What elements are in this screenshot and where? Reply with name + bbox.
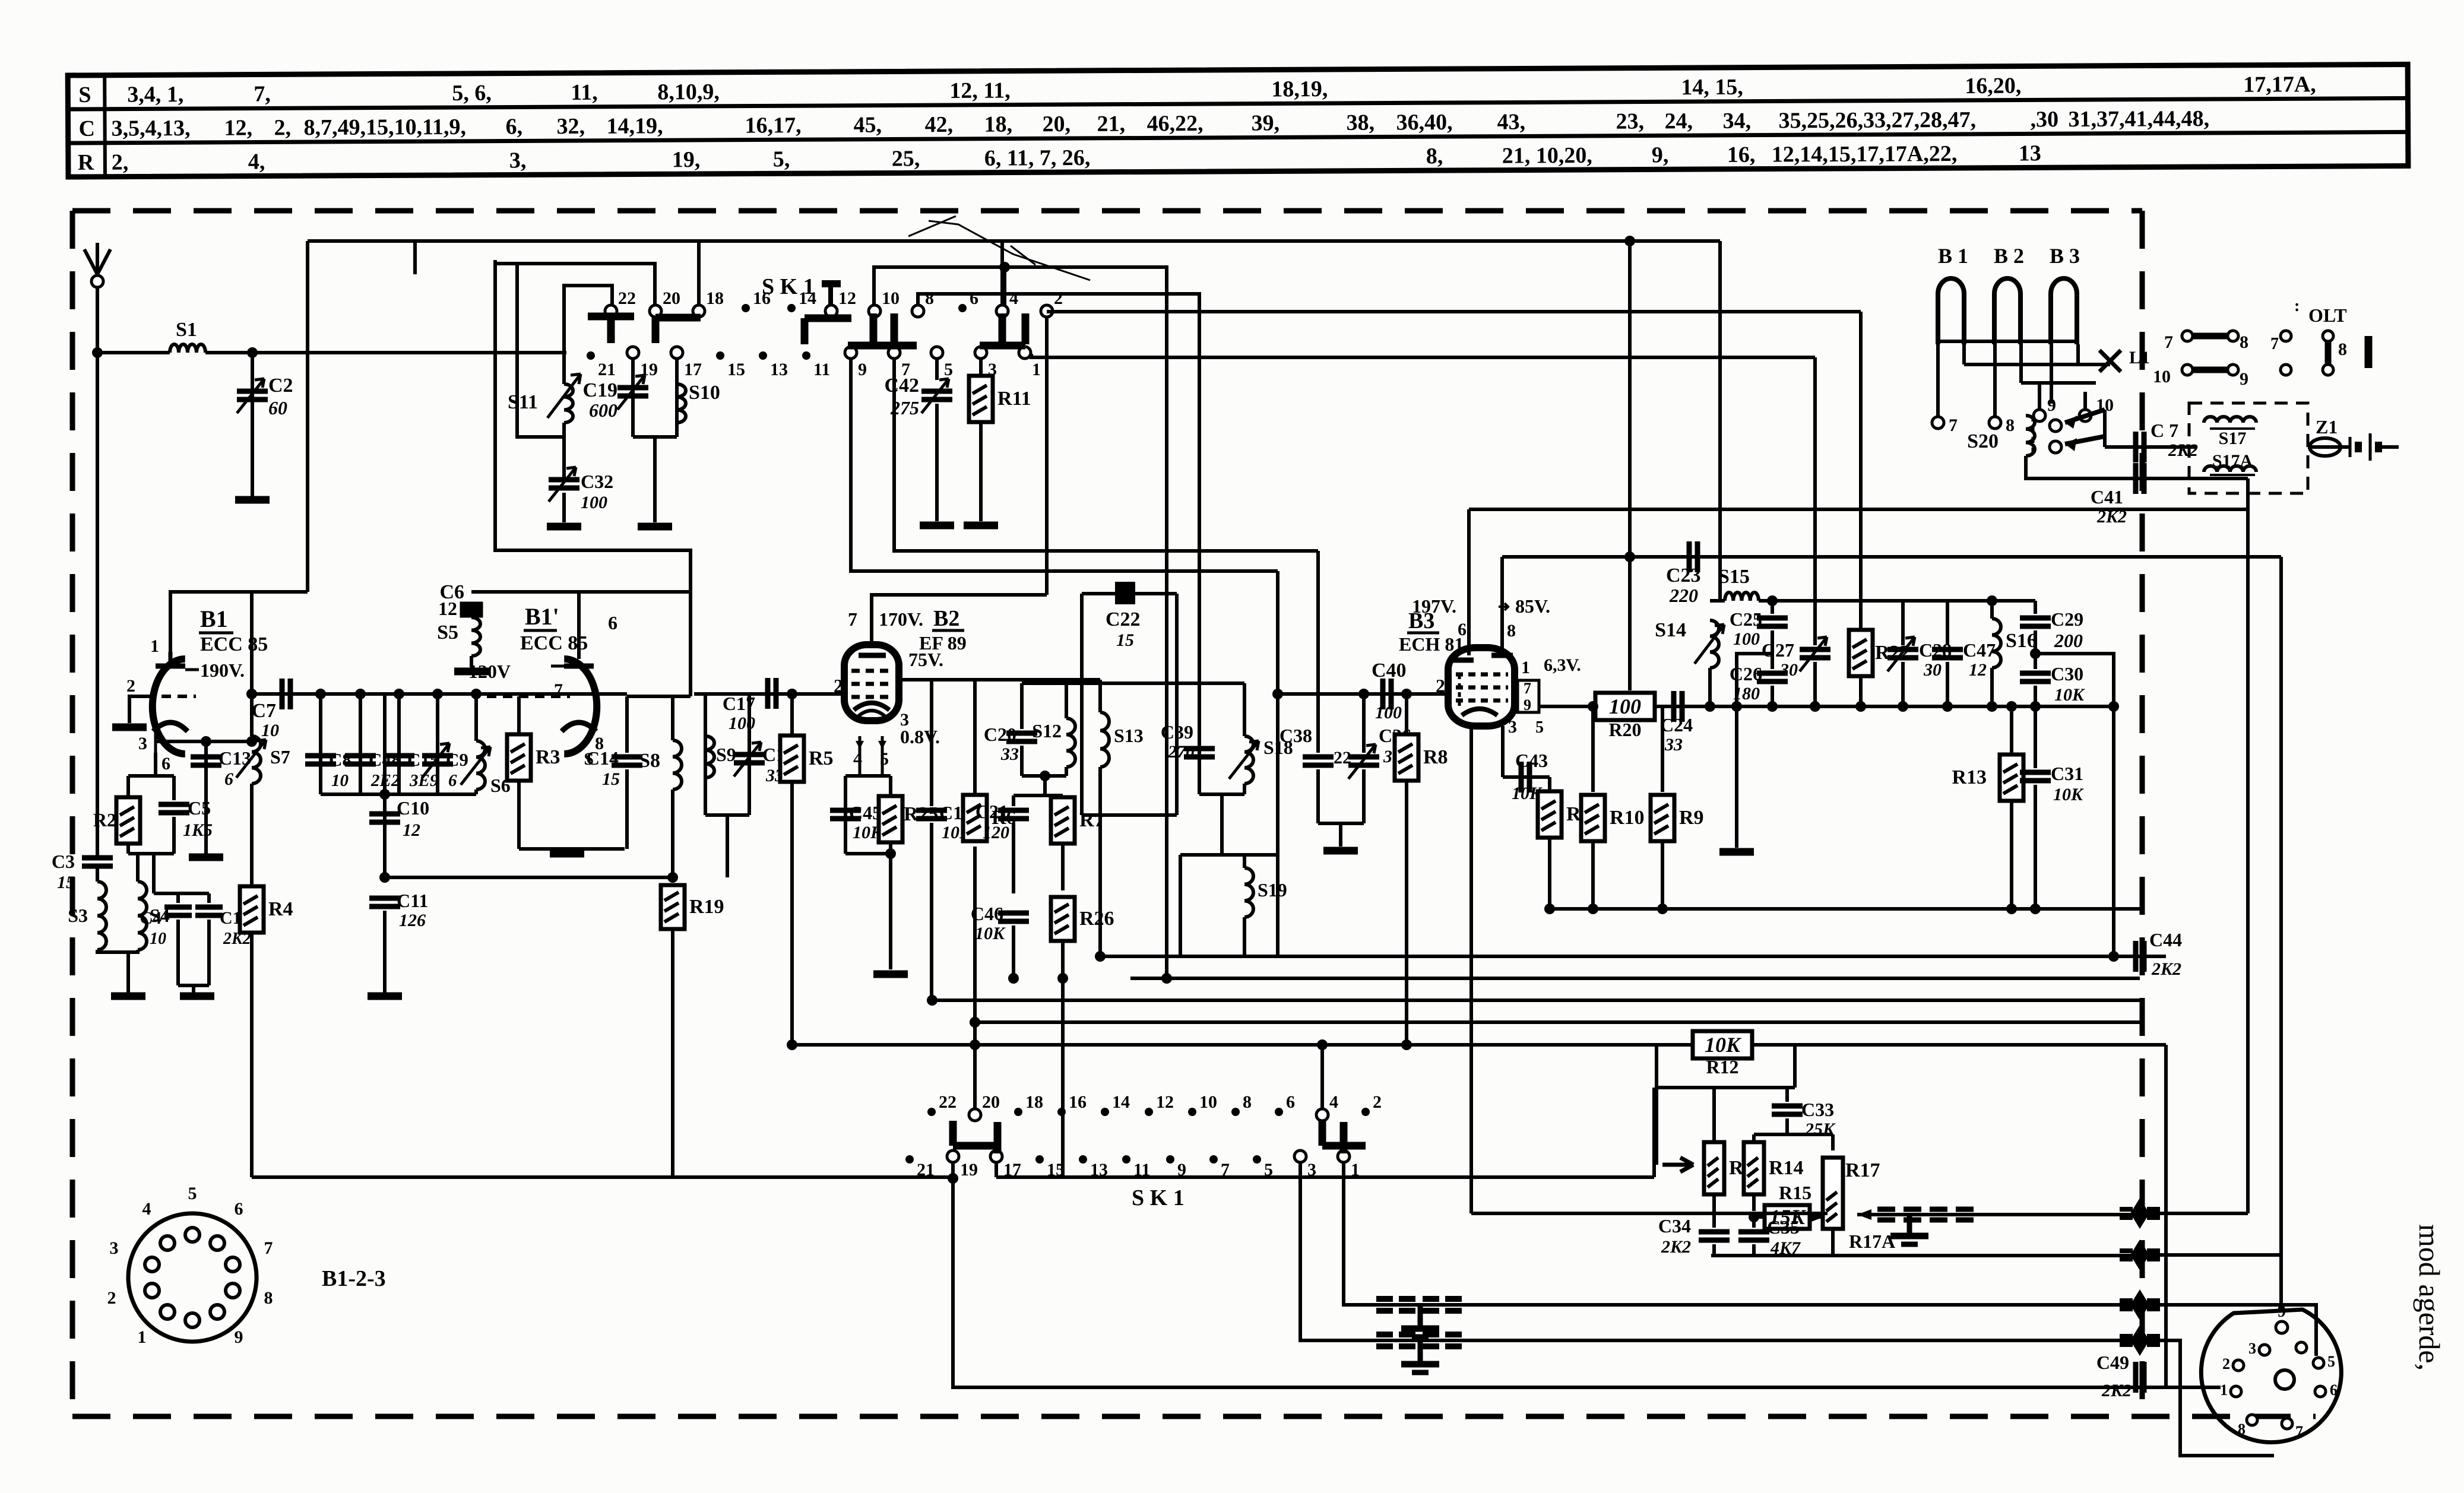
svg-text:B 1: B 1 xyxy=(1938,244,1968,268)
svg-text:16,: 16, xyxy=(1727,142,1756,167)
svg-text:19: 19 xyxy=(960,1160,978,1180)
svg-text:270: 270 xyxy=(1167,742,1195,762)
svg-text:6: 6 xyxy=(608,612,617,633)
svg-text:85V.: 85V. xyxy=(1515,595,1550,617)
svg-text:C 7: C 7 xyxy=(2151,420,2178,441)
svg-text:C26: C26 xyxy=(1730,663,1762,684)
svg-text:1K5: 1K5 xyxy=(183,820,213,840)
svg-text:C41: C41 xyxy=(2091,486,2123,508)
svg-text:B 2: B 2 xyxy=(1994,244,2024,268)
svg-text:600: 600 xyxy=(589,400,617,421)
svg-text:R17: R17 xyxy=(1845,1159,1880,1181)
svg-text:C2: C2 xyxy=(268,375,293,397)
svg-text:S20: S20 xyxy=(1967,430,1999,452)
svg-text:6,: 6, xyxy=(506,114,523,139)
svg-text:100: 100 xyxy=(1375,703,1402,722)
svg-text:3,5,4,13,: 3,5,4,13, xyxy=(112,116,191,141)
svg-text:8: 8 xyxy=(1243,1092,1252,1112)
svg-text:15: 15 xyxy=(727,360,745,379)
svg-text:R12: R12 xyxy=(1706,1056,1738,1077)
svg-text:22: 22 xyxy=(939,1092,957,1112)
svg-text:100: 100 xyxy=(581,493,607,512)
svg-text:5,: 5, xyxy=(773,147,790,172)
svg-text:100: 100 xyxy=(729,714,755,733)
svg-text:C42: C42 xyxy=(884,375,919,397)
svg-text:2K2: 2K2 xyxy=(2151,959,2181,979)
svg-text:7: 7 xyxy=(2295,1423,2303,1440)
svg-text:275: 275 xyxy=(890,397,919,419)
svg-text:C31: C31 xyxy=(2051,763,2083,784)
svg-text:C25: C25 xyxy=(1730,608,1762,630)
svg-text:15: 15 xyxy=(57,873,75,892)
svg-text:2: 2 xyxy=(2222,1355,2230,1372)
svg-text:10: 10 xyxy=(1199,1092,1217,1112)
svg-text:B1': B1' xyxy=(525,603,559,630)
svg-text:24,: 24, xyxy=(1664,109,1693,134)
svg-text:18,19,: 18,19, xyxy=(1271,77,1328,102)
svg-text:C14: C14 xyxy=(586,747,619,769)
svg-text:14, 15,: 14, 15, xyxy=(1681,75,1743,100)
svg-text:B2: B2 xyxy=(933,606,959,631)
svg-text:220: 220 xyxy=(1669,585,1698,606)
svg-text:3,: 3, xyxy=(509,148,527,173)
svg-text:30: 30 xyxy=(1779,660,1798,680)
svg-text:C4: C4 xyxy=(140,908,161,928)
svg-text:200: 200 xyxy=(2054,630,2083,651)
svg-text:170V.: 170V. xyxy=(879,608,923,630)
svg-text:4,: 4, xyxy=(248,149,265,174)
svg-text:30: 30 xyxy=(1923,660,1942,680)
svg-text:S11: S11 xyxy=(508,391,538,413)
svg-text:120: 120 xyxy=(983,823,1009,842)
svg-text:2: 2 xyxy=(107,1288,116,1308)
svg-text:32,: 32, xyxy=(557,114,585,139)
svg-text:75V.: 75V. xyxy=(908,649,943,670)
svg-text:R25: R25 xyxy=(904,803,939,825)
svg-text:2K2: 2K2 xyxy=(2096,507,2127,527)
svg-text:R5: R5 xyxy=(809,747,834,769)
svg-text:9: 9 xyxy=(1524,696,1531,714)
svg-text:6: 6 xyxy=(2330,1381,2338,1399)
svg-text:11,: 11, xyxy=(571,80,598,105)
svg-text:R26: R26 xyxy=(1079,908,1114,930)
svg-text:R2: R2 xyxy=(93,809,116,830)
svg-text:S6: S6 xyxy=(490,775,511,796)
svg-text:34,: 34, xyxy=(1722,109,1751,134)
svg-text:7: 7 xyxy=(264,1238,273,1258)
svg-text:C38: C38 xyxy=(1279,725,1312,746)
svg-text:2K2: 2K2 xyxy=(2101,1381,2132,1400)
svg-text:16: 16 xyxy=(1069,1092,1087,1112)
svg-text:3,4, 1,: 3,4, 1, xyxy=(127,82,183,107)
svg-text:8: 8 xyxy=(264,1288,273,1308)
svg-text:C32: C32 xyxy=(581,471,613,492)
svg-text:12: 12 xyxy=(403,820,420,840)
svg-text:C10: C10 xyxy=(397,797,429,819)
svg-text:C48: C48 xyxy=(369,749,400,770)
svg-text:0.8V.: 0.8V. xyxy=(900,726,940,747)
svg-text:126: 126 xyxy=(399,911,426,930)
svg-text:S9: S9 xyxy=(716,744,736,765)
svg-text:C49: C49 xyxy=(2096,1352,2129,1373)
svg-text:OLT: OLT xyxy=(2308,305,2347,326)
svg-text:1: 1 xyxy=(138,1327,147,1347)
svg-text:43,: 43, xyxy=(1497,109,1525,134)
svg-text:C47: C47 xyxy=(1963,639,1996,661)
svg-text:C8: C8 xyxy=(329,749,351,770)
svg-text:R10: R10 xyxy=(1610,807,1645,829)
svg-text:16,17,: 16,17, xyxy=(745,113,801,138)
svg-text:2K2: 2K2 xyxy=(2168,440,2198,460)
svg-text:S8: S8 xyxy=(639,750,660,772)
svg-text:9: 9 xyxy=(2047,395,2056,415)
svg-text:R15: R15 xyxy=(1779,1182,1811,1203)
svg-text:S19: S19 xyxy=(1258,879,1287,901)
svg-text:7: 7 xyxy=(848,608,857,630)
svg-text:8: 8 xyxy=(1507,621,1516,641)
svg-text:R9: R9 xyxy=(1679,807,1704,829)
svg-text:19,: 19, xyxy=(672,147,701,172)
svg-text:C35: C35 xyxy=(1767,1216,1800,1238)
svg-text:23,: 23, xyxy=(1616,109,1644,134)
svg-text:C11: C11 xyxy=(397,890,428,911)
svg-text:16,20,: 16,20, xyxy=(1965,73,2021,98)
svg-text:S12: S12 xyxy=(1032,720,1062,741)
svg-text:39,: 39, xyxy=(1251,110,1279,135)
svg-text:6: 6 xyxy=(970,289,978,308)
svg-text:C7: C7 xyxy=(251,700,276,722)
svg-text:10: 10 xyxy=(261,721,279,740)
svg-text:33: 33 xyxy=(1664,735,1683,755)
svg-text:17,17A,: 17,17A, xyxy=(2243,72,2316,97)
svg-text:C30: C30 xyxy=(2051,663,2083,684)
svg-text:3: 3 xyxy=(138,734,147,753)
svg-text:190V.: 190V. xyxy=(200,660,245,681)
svg-text:16: 16 xyxy=(753,289,771,308)
svg-text:60: 60 xyxy=(268,397,287,419)
svg-text:12: 12 xyxy=(1969,660,1987,680)
svg-text:35,25,26,33,27,28,47,: 35,25,26,33,27,28,47, xyxy=(1778,107,1976,134)
svg-text:21, 10,20,: 21, 10,20, xyxy=(1502,143,1592,169)
svg-text:S5: S5 xyxy=(437,622,458,644)
svg-text:12: 12 xyxy=(1156,1092,1174,1112)
svg-text:9: 9 xyxy=(2278,1302,2286,1321)
svg-text:2: 2 xyxy=(126,676,135,696)
svg-text:ECC 85: ECC 85 xyxy=(200,633,268,655)
svg-text:C22: C22 xyxy=(1106,608,1141,630)
svg-text:5: 5 xyxy=(944,360,953,379)
svg-text:10: 10 xyxy=(2153,367,2171,386)
svg-text:5: 5 xyxy=(1535,718,1544,737)
svg-text:12: 12 xyxy=(838,289,856,308)
svg-text:R20: R20 xyxy=(1608,719,1641,740)
svg-text:33: 33 xyxy=(1000,744,1019,764)
svg-text:10K: 10K xyxy=(2053,785,2084,804)
svg-text:6: 6 xyxy=(448,771,457,790)
svg-text:C13: C13 xyxy=(218,747,251,769)
svg-text:20: 20 xyxy=(663,289,680,308)
svg-text:36,40,: 36,40, xyxy=(1396,110,1452,135)
svg-text:18,: 18, xyxy=(984,112,1012,137)
svg-text:12,: 12, xyxy=(224,116,253,141)
svg-text:R19: R19 xyxy=(689,896,724,918)
svg-text:14: 14 xyxy=(799,289,816,308)
svg-text:6,3V.: 6,3V. xyxy=(1544,655,1581,675)
svg-text:18: 18 xyxy=(1025,1092,1043,1112)
svg-text:7,: 7, xyxy=(254,81,271,106)
svg-text:14,19,: 14,19, xyxy=(606,113,663,138)
svg-text:R3: R3 xyxy=(536,746,560,768)
svg-text:C29: C29 xyxy=(2051,608,2083,630)
svg-text:,30: ,30 xyxy=(2030,107,2058,132)
svg-text:R17A: R17A xyxy=(1849,1231,1895,1252)
svg-text:S13: S13 xyxy=(1114,725,1144,746)
svg-text:C15: C15 xyxy=(407,749,439,770)
svg-text:9: 9 xyxy=(858,360,867,379)
svg-text:R4: R4 xyxy=(268,898,293,920)
svg-text:1: 1 xyxy=(150,636,159,656)
svg-text:R13: R13 xyxy=(1952,766,1987,788)
svg-text:3: 3 xyxy=(110,1238,119,1258)
svg-text:2: 2 xyxy=(1436,675,1445,696)
svg-text:12,14,15,17,17A,22,: 12,14,15,17,17A,22, xyxy=(1772,141,1958,167)
svg-text:C34: C34 xyxy=(1658,1215,1691,1237)
svg-text:4: 4 xyxy=(142,1199,151,1219)
svg-text:17: 17 xyxy=(684,360,702,379)
svg-text:5: 5 xyxy=(188,1184,197,1203)
svg-text:20,: 20, xyxy=(1042,112,1071,137)
svg-text:10K: 10K xyxy=(975,924,1006,943)
svg-text:C39: C39 xyxy=(1161,721,1193,743)
svg-text:9: 9 xyxy=(2240,369,2248,389)
svg-text:C27: C27 xyxy=(1762,639,1794,661)
svg-text:S17: S17 xyxy=(2219,429,2247,448)
svg-text:C: C xyxy=(79,116,96,141)
svg-text:8: 8 xyxy=(925,289,934,308)
svg-text:C33: C33 xyxy=(1801,1099,1834,1120)
svg-text:22: 22 xyxy=(618,289,636,308)
svg-text:1: 1 xyxy=(1032,360,1041,379)
svg-text:8: 8 xyxy=(2240,332,2248,352)
svg-text:C24: C24 xyxy=(1660,714,1693,736)
svg-text:R14: R14 xyxy=(1769,1157,1804,1179)
svg-text:10: 10 xyxy=(150,930,166,948)
svg-text:7: 7 xyxy=(2270,335,2279,353)
svg-text:42,: 42, xyxy=(924,112,953,137)
svg-text:S7: S7 xyxy=(270,746,290,768)
svg-text:6: 6 xyxy=(1458,620,1467,639)
svg-text:7: 7 xyxy=(1949,416,1958,435)
svg-text:Z1: Z1 xyxy=(2316,416,2338,438)
svg-text:6: 6 xyxy=(1286,1092,1295,1112)
svg-text:C20: C20 xyxy=(984,724,1016,745)
svg-text:1: 1 xyxy=(1521,658,1530,677)
svg-text:10K: 10K xyxy=(2054,685,2085,705)
svg-text:46,22,: 46,22, xyxy=(1147,111,1203,136)
svg-text:100: 100 xyxy=(1733,629,1760,649)
svg-text:21: 21 xyxy=(598,360,616,379)
svg-text:S1: S1 xyxy=(176,319,197,341)
svg-text:18: 18 xyxy=(706,289,724,308)
svg-text:8,: 8, xyxy=(1426,144,1443,169)
svg-text:120V: 120V xyxy=(468,661,511,682)
svg-text:C40: C40 xyxy=(1372,660,1407,681)
svg-text:C21: C21 xyxy=(976,801,1008,822)
svg-text:10: 10 xyxy=(882,289,900,308)
svg-text:3: 3 xyxy=(2248,1340,2256,1357)
svg-text:C43: C43 xyxy=(1515,750,1548,771)
svg-text:6: 6 xyxy=(224,769,233,789)
svg-text:C44: C44 xyxy=(2149,929,2182,950)
svg-text:12, 11,: 12, 11, xyxy=(949,78,1011,103)
svg-text:15: 15 xyxy=(1116,630,1134,650)
svg-text:S10: S10 xyxy=(689,382,720,404)
svg-text:20: 20 xyxy=(982,1092,1000,1112)
svg-text:B1-2-3: B1-2-3 xyxy=(322,1266,386,1291)
svg-text:C9: C9 xyxy=(446,749,468,770)
svg-text:1: 1 xyxy=(2220,1381,2228,1399)
svg-text:2: 2 xyxy=(1054,289,1063,308)
svg-text:S16: S16 xyxy=(2006,630,2037,652)
svg-text:L1: L1 xyxy=(2129,348,2150,367)
svg-text:S17A: S17A xyxy=(2212,451,2253,471)
svg-text:R: R xyxy=(78,150,94,175)
svg-text:R11: R11 xyxy=(997,388,1031,410)
svg-text:8,10,9,: 8,10,9, xyxy=(657,80,720,104)
svg-text:8: 8 xyxy=(2338,340,2347,359)
svg-text:7: 7 xyxy=(1524,680,1531,697)
svg-text:C23: C23 xyxy=(1666,565,1701,587)
svg-text:R8: R8 xyxy=(1423,746,1448,768)
svg-text:8: 8 xyxy=(2238,1421,2246,1438)
svg-text:4: 4 xyxy=(1009,289,1018,308)
svg-text:10: 10 xyxy=(331,771,349,790)
svg-text::: : xyxy=(2294,297,2300,315)
svg-text:7: 7 xyxy=(2164,332,2173,352)
svg-text:B1: B1 xyxy=(200,606,228,632)
svg-text:13: 13 xyxy=(2019,141,2041,166)
svg-text:9: 9 xyxy=(235,1327,243,1347)
svg-text:6: 6 xyxy=(235,1199,243,1219)
svg-text:mod agerde,: mod agerde, xyxy=(2413,1224,2446,1371)
svg-text:C19: C19 xyxy=(582,379,617,401)
svg-text:31,37,41,44,48,: 31,37,41,44,48, xyxy=(2068,106,2209,132)
svg-text:13: 13 xyxy=(770,360,788,379)
svg-text:12: 12 xyxy=(438,598,457,619)
svg-text:S K 1: S K 1 xyxy=(1132,1185,1185,1210)
svg-text:C3: C3 xyxy=(52,851,75,872)
svg-text:B 3: B 3 xyxy=(2050,244,2080,268)
svg-text:S3: S3 xyxy=(68,905,88,926)
svg-text:2E2: 2E2 xyxy=(370,771,400,790)
svg-text:4: 4 xyxy=(1329,1092,1338,1112)
svg-text:6: 6 xyxy=(161,754,170,774)
svg-text:S15: S15 xyxy=(1718,566,1750,588)
svg-text:S14: S14 xyxy=(1655,619,1686,641)
svg-text:2K2: 2K2 xyxy=(1661,1237,1691,1257)
svg-text:8: 8 xyxy=(2006,416,2015,435)
svg-text:8,7,49,15,10,11,9,: 8,7,49,15,10,11,9, xyxy=(304,115,467,140)
svg-text:100: 100 xyxy=(1609,695,1641,718)
svg-text:S: S xyxy=(78,83,91,107)
svg-text:38,: 38, xyxy=(1346,110,1374,135)
svg-text:10K: 10K xyxy=(1705,1033,1742,1057)
svg-text:11: 11 xyxy=(813,360,830,379)
svg-text:9,: 9, xyxy=(1652,142,1669,167)
svg-text:14: 14 xyxy=(1112,1092,1130,1112)
svg-text:5: 5 xyxy=(2327,1353,2335,1370)
svg-text:25,: 25, xyxy=(892,146,920,171)
svg-text:2: 2 xyxy=(1373,1092,1382,1112)
svg-text:197V.: 197V. xyxy=(1412,595,1456,617)
svg-text:6, 11, 7, 26,: 6, 11, 7, 26, xyxy=(984,145,1091,171)
svg-text:15: 15 xyxy=(602,769,620,789)
svg-text:2,: 2, xyxy=(274,115,292,140)
svg-text:45,: 45, xyxy=(853,113,882,138)
svg-text:21,: 21, xyxy=(1097,112,1125,137)
svg-text:5, 6,: 5, 6, xyxy=(452,81,492,106)
svg-text:2,: 2, xyxy=(112,150,129,175)
svg-text:3: 3 xyxy=(1508,717,1517,737)
